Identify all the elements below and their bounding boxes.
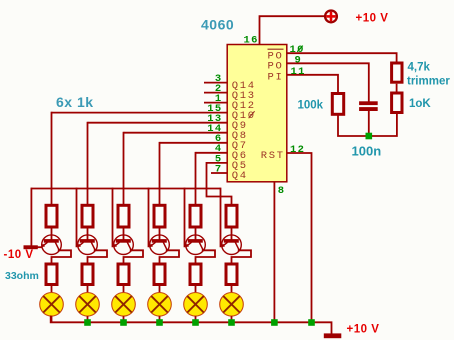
svg-text:PI: PI [268, 72, 284, 84]
wire collector of Q1 [52, 250, 72, 263]
resistor R1 1k [46, 205, 57, 227]
wire base of Q4 [159, 229, 161, 240]
capacitor C1 100n [359, 101, 378, 105]
wire base of Q6 [231, 229, 233, 240]
wire net from IC pin 4 to base resistor R5 [196, 152, 228, 154]
svg-text:+10 V: +10 V [356, 13, 389, 25]
-10V supply bar [24, 245, 38, 249]
svg-text:Q4: Q4 [232, 170, 248, 182]
svg-text:9: 9 [295, 54, 303, 66]
wire emitter of Q6 to bus [220, 188, 223, 247]
transistor Q6 PNP [221, 235, 241, 255]
pin 12 RST wire to bus [287, 153, 312, 323]
resistor R5 1k [190, 205, 201, 227]
resistor R8 33ohm [82, 264, 93, 285]
resistor R4 1k [154, 205, 165, 227]
node wire bottom of RC network [338, 114, 397, 137]
wire base of Q3 [123, 229, 125, 240]
resistor R3 1k [118, 205, 129, 227]
svg-text:6x 1k: 6x 1k [56, 94, 94, 110]
wire net from IC pin 14 to base resistor R3 [124, 132, 228, 134]
transistor Q3 PNP [113, 235, 133, 255]
wire base of Q1 [51, 229, 53, 240]
svg-text:100n: 100n [352, 144, 382, 159]
wire collector of Q4 [160, 250, 180, 263]
wire to lamp LA3 [123, 286, 125, 294]
wire emitter of Q2 to bus [76, 188, 79, 247]
transistor Q2 PNP [77, 235, 97, 255]
wire to lamp LA4 [159, 286, 161, 294]
svg-text:4060: 4060 [201, 17, 234, 33]
wire lamp LA5 to ground bus [195, 316, 197, 323]
svg-text:16: 16 [244, 35, 259, 47]
lamp LA5 [184, 293, 208, 317]
wire lamp LA4 to ground bus [159, 316, 161, 323]
bottom +10V bus [51, 316, 332, 335]
wire to lamp LA1 [51, 286, 53, 294]
slash on zero of Q10 [249, 111, 255, 118]
wire net from IC pin 5 to base resistor R6 [207, 163, 232, 205]
svg-text:4,7k: 4,7k [408, 62, 431, 74]
svg-text:100k: 100k [298, 100, 324, 112]
resistor R2 1k [82, 205, 93, 227]
wire base of Q5 [195, 229, 197, 240]
junction node capacitor [366, 133, 373, 140]
pin 9 wire to capacitor [287, 63, 369, 102]
wire lamp LA6 to ground bus [231, 316, 233, 323]
svg-text:-10 V: -10 V [4, 249, 34, 261]
emitter bus rail to -10V [31, 188, 220, 190]
wire to lamp LA2 [87, 286, 89, 294]
resistor R10 33ohm [154, 264, 165, 285]
wire emitter of Q3 to bus [112, 188, 115, 247]
svg-text:8: 8 [278, 185, 286, 197]
wire emitter of Q5 to bus [184, 188, 187, 247]
wire collector of Q3 [124, 250, 144, 263]
svg-text:11: 11 [291, 66, 306, 78]
svg-text:33ohm: 33ohm [5, 270, 39, 282]
wire to lamp LA6 [231, 286, 233, 294]
pin 8 wire to bus [273, 182, 275, 323]
svg-text:12: 12 [290, 144, 305, 156]
wire lamp LA1 to ground bus [51, 316, 53, 323]
pin 10 wire to trimmer [287, 53, 397, 62]
transistor Q1 PNP [41, 235, 61, 255]
wire lamp LA2 to ground bus [87, 316, 89, 323]
resistor R14 4,7k trimmer [392, 63, 402, 82]
wire net from IC pin 13 to base resistor R2 [88, 122, 228, 124]
wire net from IC pin 6 to base resistor R4 [160, 142, 228, 144]
resistor R12 33ohm [226, 264, 237, 285]
wire to lamp LA5 [195, 286, 197, 294]
resistor R13 100k [332, 94, 343, 115]
svg-text:RST: RST [261, 150, 285, 162]
lamp LA2 [76, 293, 100, 317]
lamp LA6 [220, 293, 244, 317]
lamp LA3 [112, 293, 136, 317]
svg-text:7: 7 [215, 163, 223, 175]
slash on zero of pin 10 [297, 46, 303, 52]
svg-text:+10 V: +10 V [347, 324, 380, 336]
IC U1 4060 body [227, 45, 287, 182]
svg-text:trimmer: trimmer [407, 76, 450, 88]
+10V supply bar bottom [324, 333, 342, 338]
wire lamp LA3 to ground bus [123, 316, 125, 323]
+10V supply symbol top [325, 11, 337, 23]
wire base of Q2 [87, 229, 89, 240]
resistor R6 1k [226, 205, 237, 227]
lamp LA4 [148, 293, 172, 317]
transistor Q4 PNP [149, 235, 169, 255]
wire collector of Q2 [88, 250, 108, 263]
wire collector of Q5 [196, 250, 216, 263]
unused pin stubs 3 2 1 7 [204, 82, 227, 84]
pin 11 wire to 100k [287, 75, 338, 93]
resistor R15 10K [392, 93, 402, 113]
resistor R9 33ohm [118, 264, 129, 285]
lamp LA1 [40, 293, 64, 317]
wire collector of Q6 [232, 250, 252, 263]
transistor Q5 PNP [185, 235, 205, 255]
junction nodes on bottom bus [84, 319, 91, 326]
resistor R11 33ohm [190, 264, 201, 285]
svg-text:1oK: 1oK [409, 98, 431, 110]
wire trimmer to 10K [396, 84, 398, 92]
resistor R7 33ohm [46, 264, 57, 285]
wire net from IC pin 15 to base resistor R1 [52, 112, 228, 114]
wire emitter of Q4 to bus [148, 188, 151, 247]
pin 16 wire to +10V [260, 16, 325, 44]
